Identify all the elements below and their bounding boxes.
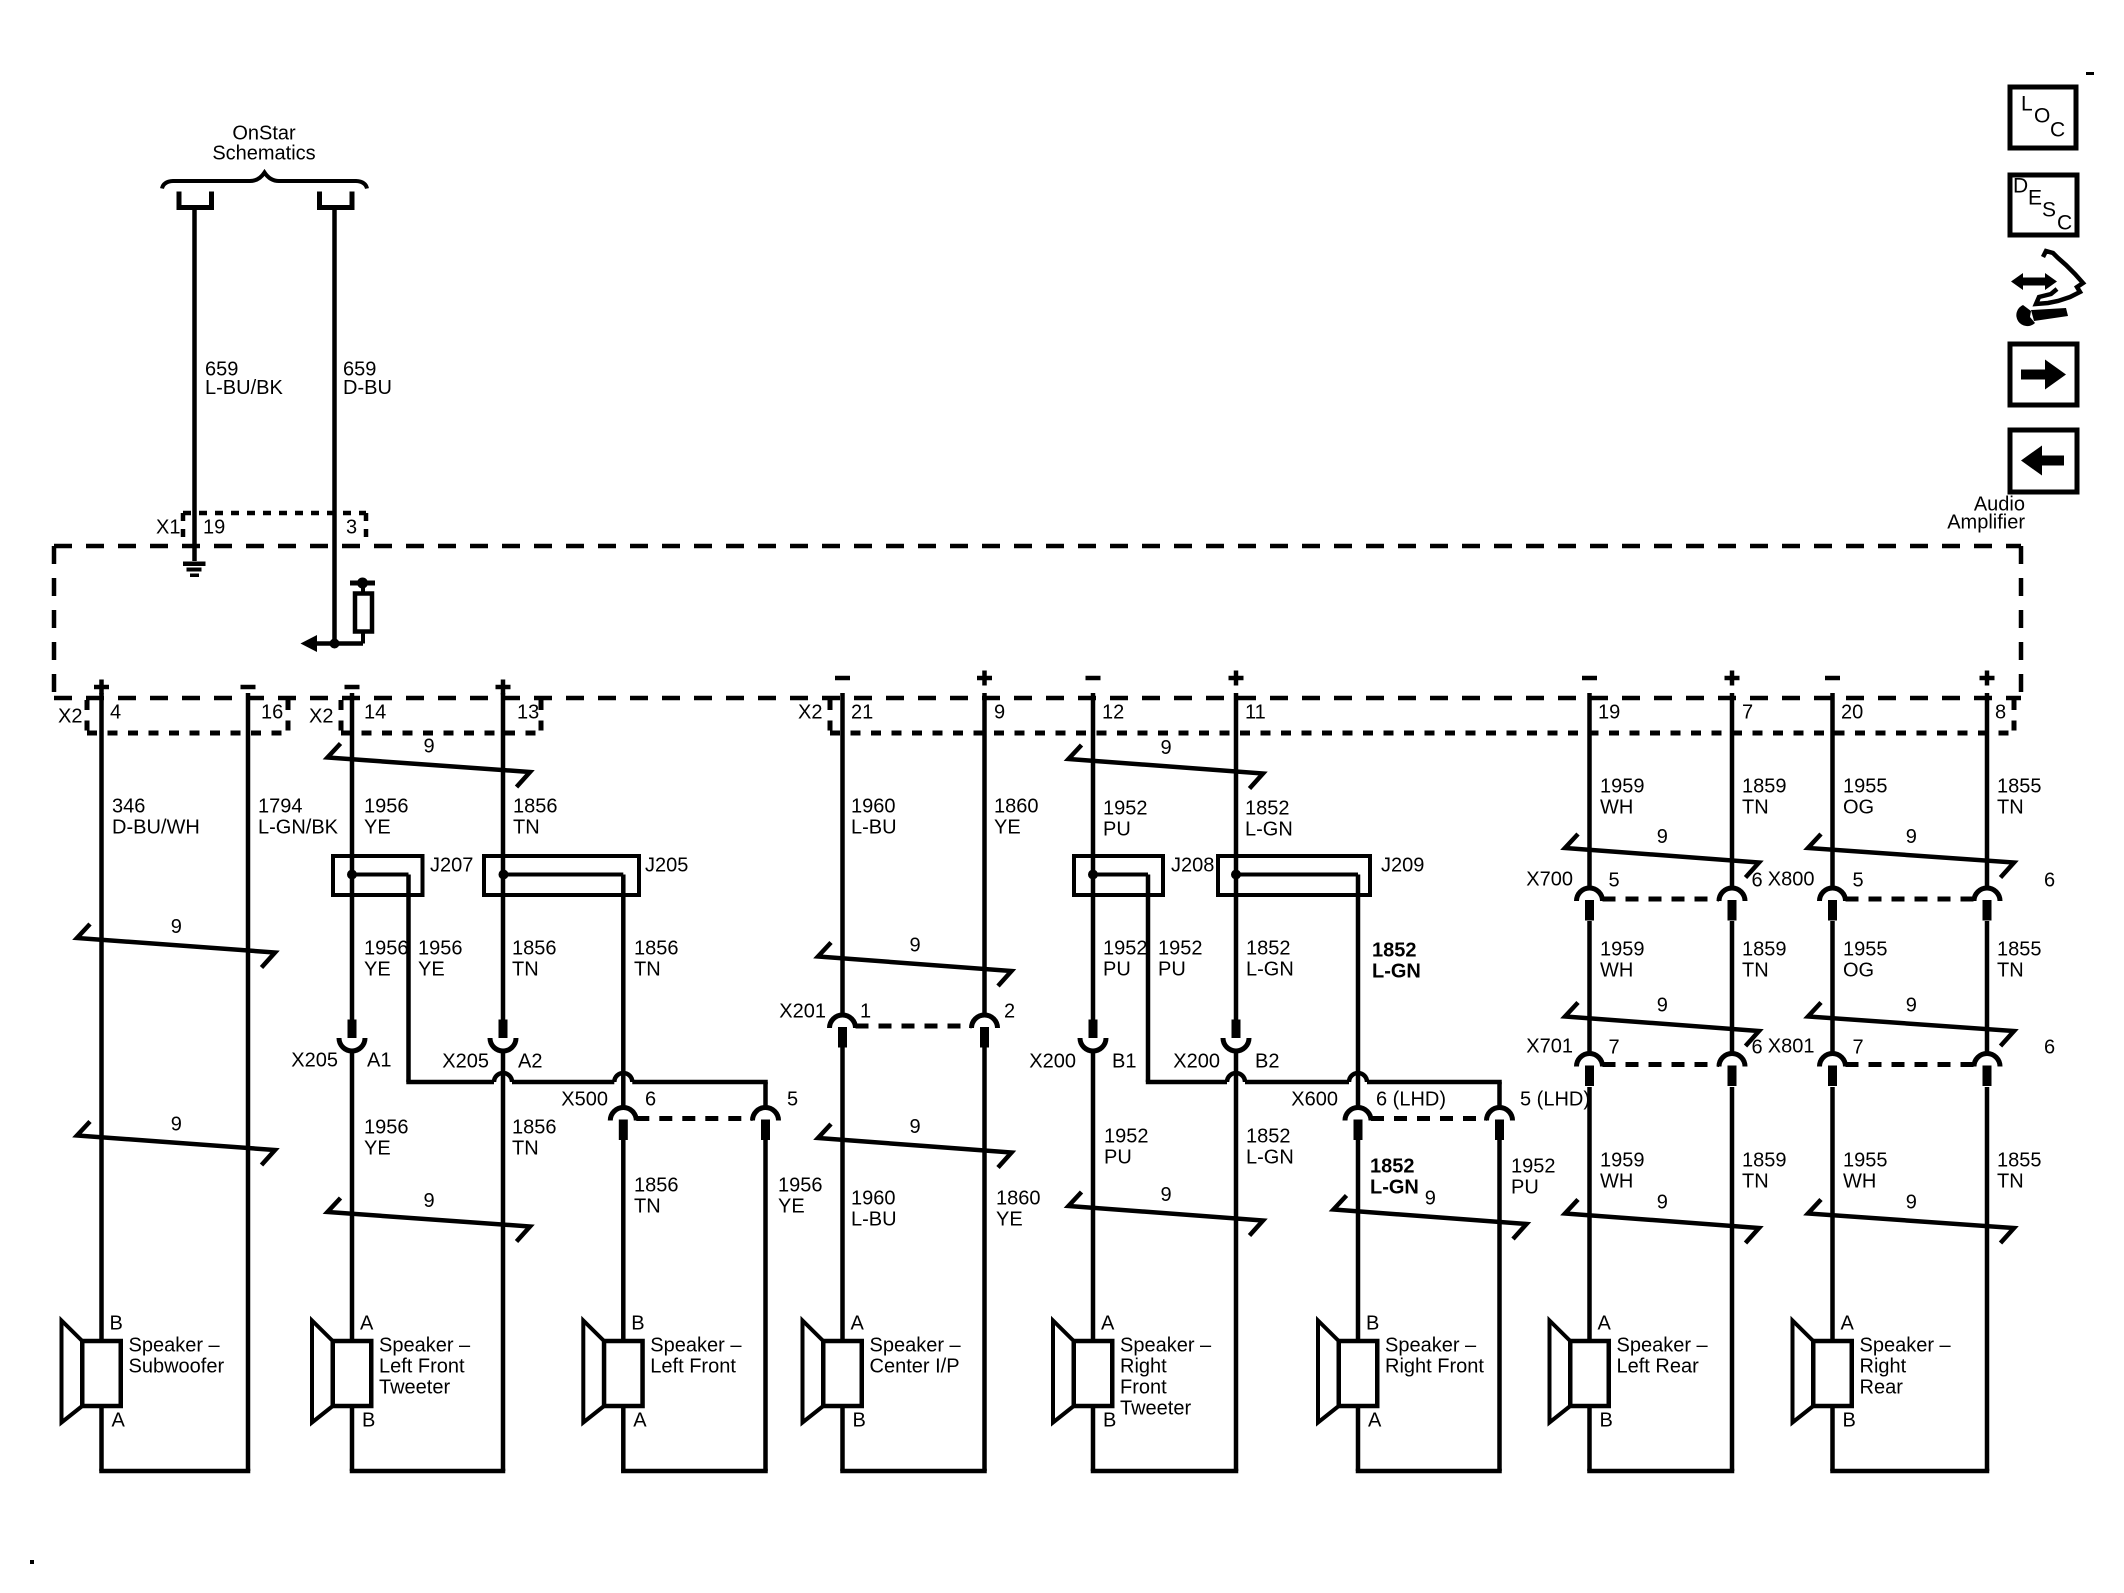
svg-text:B: B xyxy=(853,1410,866,1432)
svg-text:TN: TN xyxy=(1997,797,2024,819)
svg-text:9: 9 xyxy=(994,702,1005,724)
twisted pair marker left rear (middle) xyxy=(1565,995,1759,1046)
connector X800 pin 6 xyxy=(1974,888,2000,921)
svg-text:9: 9 xyxy=(424,1190,435,1212)
svg-text:Front: Front xyxy=(1120,1377,1167,1399)
label wire 1860 YE (pin9) xyxy=(994,796,1039,839)
svg-text:A2: A2 xyxy=(518,1051,542,1073)
svg-text:1959: 1959 xyxy=(1600,1150,1645,1172)
svg-text:J205: J205 xyxy=(645,855,688,877)
svg-text:346: 346 xyxy=(112,796,145,818)
wire Left Rear to bottom loop xyxy=(1587,1406,1734,1471)
speaker Left Front xyxy=(583,1313,742,1432)
svg-text:D-BU: D-BU xyxy=(343,377,392,399)
splice J208 xyxy=(1074,856,1163,895)
polarity - at amplifier output xyxy=(835,676,850,681)
polarity - at amplifier output xyxy=(241,685,256,690)
svg-text:O: O xyxy=(2034,104,2050,127)
label wire 346 D-BU/WH xyxy=(112,796,200,839)
svg-text:14: 14 xyxy=(364,702,386,724)
svg-text:B: B xyxy=(110,1313,123,1335)
wire 1856 TN branch J205 to left front speaker xyxy=(621,875,626,1342)
svg-text:9: 9 xyxy=(1657,1192,1668,1214)
svg-text:9: 9 xyxy=(910,935,921,957)
label wire 1852 L-GN (pin11) xyxy=(1245,798,1293,841)
svg-text:1: 1 xyxy=(860,1001,871,1023)
label wire 1859 TN (pin7) xyxy=(1742,776,1787,819)
label wire 1859 TN (low) xyxy=(1742,1150,1787,1193)
svg-text:Speaker –: Speaker – xyxy=(1617,1335,1709,1357)
connector X500 pin 6 xyxy=(610,1108,636,1140)
svg-text:1856: 1856 xyxy=(512,1117,557,1139)
svg-text:WH: WH xyxy=(1600,797,1633,819)
label wire 659 L-BU/BK xyxy=(205,359,283,400)
wire 1952 PU pin12 to RF tweeter xyxy=(1091,693,1096,1341)
svg-text:TN: TN xyxy=(1742,1171,1769,1193)
svg-text:Left Front: Left Front xyxy=(379,1356,465,1378)
svg-text:6 (LHD): 6 (LHD) xyxy=(1376,1089,1446,1111)
svg-text:2: 2 xyxy=(1004,1001,1015,1023)
wire Right Front to bottom loop xyxy=(1356,1406,1502,1471)
svg-text:1859: 1859 xyxy=(1742,939,1787,961)
connector X2 pin box (pins 21,9,12,11,19,7,20,8) xyxy=(830,700,2014,733)
svg-text:6: 6 xyxy=(1752,870,1763,892)
svg-text:Center I/P: Center I/P xyxy=(870,1356,960,1378)
svg-text:L-GN: L-GN xyxy=(1246,1147,1294,1169)
svg-text:1956: 1956 xyxy=(778,1175,823,1197)
wire 346 D-BU/WH pin4 to subwoofer xyxy=(99,693,104,1341)
junction dot on wire 659 D-BU xyxy=(330,639,340,649)
wire 1852 L-GN branch J209 to right front speaker xyxy=(1356,875,1361,1342)
label wire 1855 TN (mid) xyxy=(1997,939,2042,982)
resistor inside amplifier xyxy=(355,594,372,632)
svg-text:A: A xyxy=(1598,1313,1612,1335)
connector X600 mating dashed line xyxy=(1371,1116,1487,1121)
svg-text:Left Front: Left Front xyxy=(650,1356,736,1378)
connector X600 pin 6 (LHD) xyxy=(1345,1108,1371,1140)
splice J207 xyxy=(333,856,423,895)
wire Left Front Tweeter to bottom loop xyxy=(350,1406,506,1471)
twisted pair marker left rear (lower) xyxy=(1565,1192,1759,1243)
svg-text:PU: PU xyxy=(1511,1177,1539,1199)
connector X701 pin 7 xyxy=(1577,1054,1603,1086)
svg-text:Schematics: Schematics xyxy=(212,143,315,165)
svg-text:9: 9 xyxy=(171,1114,182,1136)
svg-text:PU: PU xyxy=(1103,819,1131,841)
label wire 1952 PU (pin12) xyxy=(1103,798,1148,841)
label wire 1960 L-BU (pin21) xyxy=(851,796,897,839)
svg-text:6: 6 xyxy=(2044,870,2055,892)
svg-text:TN: TN xyxy=(1997,960,2024,982)
label wire 1955 OG (mid) xyxy=(1843,939,1888,982)
svg-text:1852: 1852 xyxy=(1245,798,1290,820)
polarity + at amplifier output xyxy=(94,680,109,695)
wire 1960 L-BU pin21 to center speaker xyxy=(840,693,845,1341)
svg-text:Right Front: Right Front xyxy=(1385,1356,1484,1378)
wire 1860 YE pin9 to center loop xyxy=(982,693,987,1471)
svg-text:11: 11 xyxy=(1245,702,1266,724)
svg-text:Rear: Rear xyxy=(1860,1377,1904,1399)
svg-text:X801: X801 xyxy=(1768,1036,1815,1058)
connector X800 pin 5 xyxy=(1820,888,1846,921)
label wire 1852 L-GN (below X200 B2) xyxy=(1246,1126,1294,1169)
svg-text:1855: 1855 xyxy=(1997,1150,2042,1172)
svg-text:20: 20 xyxy=(1841,702,1863,724)
wire 659 D-BU from OnStar pin to X1-3 xyxy=(332,208,337,644)
svg-text:1960: 1960 xyxy=(851,1188,896,1210)
label wire 659 D-BU xyxy=(343,359,392,400)
svg-text:X700: X700 xyxy=(1526,869,1573,891)
arrow to internal amplifier circuit xyxy=(301,635,318,652)
svg-text:L-BU: L-BU xyxy=(851,817,897,839)
svg-text:5: 5 xyxy=(787,1089,798,1111)
speaker Right Front Tweeter xyxy=(1053,1313,1212,1432)
wire Subwoofer to bottom loop xyxy=(99,1406,250,1471)
svg-text:1855: 1855 xyxy=(1997,776,2042,798)
label branch 1852 L-GN (J209 splice out) xyxy=(1372,940,1421,983)
svg-text:L-GN/BK: L-GN/BK xyxy=(258,817,339,839)
svg-text:6: 6 xyxy=(2044,1037,2055,1059)
icon box LOC xyxy=(2010,87,2076,148)
svg-text:1852: 1852 xyxy=(1246,1126,1291,1148)
svg-text:B: B xyxy=(1600,1410,1613,1432)
svg-text:8: 8 xyxy=(1995,702,2006,724)
svg-text:1952: 1952 xyxy=(1103,798,1148,820)
svg-text:B1: B1 xyxy=(1112,1051,1136,1073)
connector X701 mating dashed line xyxy=(1603,1062,1720,1067)
svg-text:L-GN: L-GN xyxy=(1370,1177,1419,1199)
svg-text:WH: WH xyxy=(1600,1171,1633,1193)
svg-text:A: A xyxy=(1101,1313,1115,1335)
svg-text:16: 16 xyxy=(261,702,283,724)
connector X1 (dotted box, pins 19 and 3) xyxy=(183,513,366,544)
terminal bar with dot above resistor xyxy=(350,578,375,595)
svg-text:1856: 1856 xyxy=(513,796,558,818)
svg-text:1952: 1952 xyxy=(1103,938,1148,960)
connector X200 pin B2 xyxy=(1223,1020,1249,1052)
label branch 1852 L-GN (main below J209) xyxy=(1246,938,1294,981)
svg-text:PU: PU xyxy=(1103,959,1131,981)
svg-text:5 (LHD): 5 (LHD) xyxy=(1520,1089,1590,1111)
hop over wire 1852 L-GN branch at X600-6 xyxy=(1349,1073,1367,1082)
connector X801 mating dashed line xyxy=(1846,1062,1975,1067)
svg-text:TN: TN xyxy=(1742,797,1769,819)
svg-text:YE: YE xyxy=(364,959,391,981)
svg-text:1856: 1856 xyxy=(634,938,679,960)
svg-text:Speaker –: Speaker – xyxy=(1860,1335,1952,1357)
connector X201 pin 2 xyxy=(972,1015,998,1047)
audio amplifier dashed box xyxy=(54,546,2021,698)
wire Left Front to bottom loop xyxy=(621,1406,768,1471)
svg-text:9: 9 xyxy=(1161,737,1172,759)
svg-text:1960: 1960 xyxy=(851,796,896,818)
svg-text:9: 9 xyxy=(424,736,435,758)
svg-text:1860: 1860 xyxy=(996,1188,1041,1210)
svg-text:X2: X2 xyxy=(58,706,82,728)
svg-text:OG: OG xyxy=(1843,960,1874,982)
svg-text:1959: 1959 xyxy=(1600,939,1645,961)
svg-text:1856: 1856 xyxy=(634,1175,679,1197)
connector X500 pin 5 xyxy=(753,1108,779,1140)
svg-text:A: A xyxy=(112,1410,126,1432)
label branch 1856 TN (J205 splice out) xyxy=(634,938,679,981)
svg-text:1860: 1860 xyxy=(994,796,1039,818)
svg-text:OnStar: OnStar xyxy=(232,123,296,145)
svg-text:9: 9 xyxy=(910,1116,921,1138)
svg-text:X600: X600 xyxy=(1291,1089,1338,1111)
svg-text:C: C xyxy=(2057,211,2072,234)
svg-text:21: 21 xyxy=(851,702,873,724)
svg-text:1855: 1855 xyxy=(1997,939,2042,961)
svg-text:X200: X200 xyxy=(1029,1051,1076,1073)
svg-text:Tweeter: Tweeter xyxy=(379,1377,450,1399)
label wire 1952 PU (below X200 B1) xyxy=(1104,1126,1149,1169)
svg-text:1956: 1956 xyxy=(418,938,463,960)
svg-text:12: 12 xyxy=(1102,702,1124,724)
svg-text:7: 7 xyxy=(1742,702,1753,724)
svg-text:L-GN: L-GN xyxy=(1245,819,1293,841)
svg-text:9: 9 xyxy=(1906,1192,1917,1214)
label wire 1860 YE (low) xyxy=(996,1188,1041,1231)
speaker Center I/P xyxy=(803,1313,962,1432)
svg-text:X1: X1 xyxy=(156,517,180,539)
svg-text:YE: YE xyxy=(994,817,1021,839)
polarity + at amplifier output xyxy=(1980,671,1995,686)
wire from resistor to junction xyxy=(309,632,363,644)
label wire 1856 TN (below X500-6) xyxy=(634,1175,679,1218)
polarity + at amplifier output xyxy=(977,671,992,686)
svg-text:Right: Right xyxy=(1860,1356,1907,1378)
label wire 1955 WH (low) xyxy=(1843,1150,1888,1193)
wire 1852 L-GN pin11 to RF tweeter loop xyxy=(1234,693,1239,1471)
twisted pair marker subwoofer (lower) xyxy=(77,1114,275,1165)
connector X201 mating dashed line xyxy=(856,1024,972,1029)
svg-text:X800: X800 xyxy=(1768,869,1815,891)
label wire 1960 L-BU (low) xyxy=(851,1188,897,1231)
svg-text:5: 5 xyxy=(1853,870,1864,892)
svg-text:YE: YE xyxy=(996,1209,1023,1231)
wire Center I/P to bottom loop xyxy=(840,1406,987,1471)
svg-text:1852: 1852 xyxy=(1246,938,1291,960)
twisted pair marker center speaker (upper) xyxy=(818,935,1012,986)
svg-text:TN: TN xyxy=(1742,960,1769,982)
label Audio Amplifier xyxy=(1947,494,2025,534)
label wire 1856 TN (below X205 A2) xyxy=(512,1117,557,1160)
svg-text:X200: X200 xyxy=(1173,1051,1220,1073)
svg-text:X201: X201 xyxy=(779,1001,826,1023)
svg-text:9: 9 xyxy=(1657,826,1668,848)
label branch 1952 PU (main below J208) xyxy=(1103,938,1148,981)
speaker Subwoofer xyxy=(62,1313,225,1432)
hop over wire 1856 TN branch at X500-6 xyxy=(614,1073,632,1082)
label branch 1952 PU (J208 splice out) xyxy=(1158,938,1203,981)
twisted pair marker right rear (lower) xyxy=(1808,1192,2014,1243)
brace over OnStar connectors xyxy=(162,173,367,189)
svg-text:9: 9 xyxy=(1906,995,1917,1017)
svg-text:A1: A1 xyxy=(367,1050,391,1072)
connector X701 pin 6 xyxy=(1719,1054,1745,1086)
twisted pair marker LF tweeter (lower) xyxy=(328,1190,531,1241)
svg-text:Subwoofer: Subwoofer xyxy=(129,1356,225,1378)
svg-text:1956: 1956 xyxy=(364,1117,409,1139)
connector X600 pin 5 (LHD) xyxy=(1487,1108,1513,1140)
svg-text:L-BU: L-BU xyxy=(851,1209,897,1231)
ground symbol xyxy=(183,562,206,578)
svg-text:WH: WH xyxy=(1600,960,1633,982)
connector X800 mating dashed line xyxy=(1846,897,1975,902)
wire 1959 WH pin19 to left rear speaker xyxy=(1587,693,1592,1341)
icon hotlink arrows and wrench xyxy=(2011,251,2083,326)
svg-text:TN: TN xyxy=(512,959,539,981)
polarity + at amplifier output xyxy=(1725,671,1740,686)
wire 1856 TN pin13 to LF tweeter loop xyxy=(501,693,506,1471)
svg-text:D-BU/WH: D-BU/WH xyxy=(112,817,200,839)
svg-text:1952: 1952 xyxy=(1104,1126,1149,1148)
connector X205 pin A2 xyxy=(490,1020,516,1052)
connector X500 mating dashed line xyxy=(636,1116,752,1121)
svg-text:PU: PU xyxy=(1104,1147,1132,1169)
svg-text:1952: 1952 xyxy=(1511,1156,1556,1178)
svg-text:B: B xyxy=(1103,1410,1116,1432)
svg-text:C: C xyxy=(2050,118,2065,141)
svg-text:TN: TN xyxy=(1997,1171,2024,1193)
svg-text:E: E xyxy=(2028,186,2042,209)
speaker Right Front xyxy=(1318,1313,1484,1432)
label wire 1956 YE (pin14) xyxy=(364,796,409,839)
label branch 1956 YE (J207 splice out) xyxy=(418,938,463,981)
wire 659 L-BU/BK from OnStar pin to X1-19 xyxy=(192,208,197,562)
svg-text:5: 5 xyxy=(1609,870,1620,892)
label wire 1952 PU (below X600-5) xyxy=(1511,1156,1556,1199)
svg-text:J208: J208 xyxy=(1171,855,1214,877)
speaker Left Rear xyxy=(1550,1313,1709,1432)
link wire J207 branch to X500-5 (left segment) xyxy=(406,1080,494,1085)
connector X201 pin 1 xyxy=(830,1015,856,1047)
polarity - at amplifier output xyxy=(1086,676,1101,681)
label branch 1956 YE (main below J207) xyxy=(364,938,409,981)
wire 1955 OG pin20 to right rear speaker xyxy=(1830,693,1835,1341)
page artifact dot bottom left xyxy=(30,1560,34,1564)
svg-text:YE: YE xyxy=(778,1196,805,1218)
twisted pair marker RF tweeter (upper) xyxy=(1069,737,1264,788)
svg-text:WH: WH xyxy=(1843,1171,1876,1193)
svg-text:1955: 1955 xyxy=(1843,1150,1888,1172)
label wire 1959 WH (pin19) xyxy=(1600,776,1645,819)
svg-text:19: 19 xyxy=(1598,702,1620,724)
link wire J208 branch to X600-5 (left segment) xyxy=(1146,1080,1227,1085)
icon box arrow right xyxy=(2010,344,2077,405)
wire 1859 TN pin7 to left rear loop xyxy=(1730,693,1735,1471)
svg-text:9: 9 xyxy=(1161,1184,1172,1206)
svg-text:1859: 1859 xyxy=(1742,776,1787,798)
twisted pair marker LF tweeter (upper) xyxy=(328,736,531,787)
label wire 1852 L-GN (below X600-6) xyxy=(1370,1156,1419,1199)
hop over wire 1856 TN at X205 A2 xyxy=(494,1073,512,1082)
svg-text:A: A xyxy=(360,1313,374,1335)
polarity + at amplifier output xyxy=(1229,671,1244,686)
svg-text:X205: X205 xyxy=(442,1051,489,1073)
svg-text:L-GN: L-GN xyxy=(1372,961,1421,983)
OnStar connector terminal 2 xyxy=(320,192,353,208)
polarity - at amplifier output xyxy=(345,685,360,690)
svg-text:1956: 1956 xyxy=(364,938,409,960)
wire 1956 YE branch from J207 xyxy=(406,875,411,1083)
page artifact dash top right xyxy=(2086,72,2094,75)
twisted pair marker left rear (upper) xyxy=(1565,826,1759,877)
wire Right Rear to bottom loop xyxy=(1830,1406,1989,1471)
svg-text:Speaker –: Speaker – xyxy=(379,1335,471,1357)
twisted pair marker right rear (middle) xyxy=(1808,995,2014,1046)
svg-text:1856: 1856 xyxy=(512,938,557,960)
link wire (right segment) xyxy=(1367,1080,1502,1085)
svg-text:1956: 1956 xyxy=(364,796,409,818)
svg-text:1852: 1852 xyxy=(1370,1156,1415,1178)
label wire 1856 TN (pin13) xyxy=(513,796,558,839)
svg-text:YE: YE xyxy=(364,817,391,839)
wire 1952 PU branch from J208 xyxy=(1146,875,1151,1083)
link wire (middle segment) xyxy=(1245,1080,1349,1085)
svg-text:1859: 1859 xyxy=(1742,1150,1787,1172)
polarity - at amplifier output xyxy=(1582,676,1597,681)
svg-text:TN: TN xyxy=(634,959,661,981)
svg-text:A: A xyxy=(1841,1313,1855,1335)
wire 1855 TN pin8 to right rear loop xyxy=(1985,693,1990,1471)
svg-text:Left Rear: Left Rear xyxy=(1617,1356,1700,1378)
svg-text:A: A xyxy=(633,1410,647,1432)
wire 1956 YE pin14 to LF tweeter xyxy=(350,693,355,1341)
svg-text:1955: 1955 xyxy=(1843,939,1888,961)
connector X2 pin box (pins 4,16) xyxy=(87,700,288,733)
svg-text:9: 9 xyxy=(171,916,182,938)
svg-text:Speaker –: Speaker – xyxy=(870,1335,962,1357)
svg-text:TN: TN xyxy=(512,1138,539,1160)
splice J205 xyxy=(484,856,639,895)
svg-text:L-BU/BK: L-BU/BK xyxy=(205,377,283,399)
svg-text:9: 9 xyxy=(1425,1188,1436,1210)
hop over wire 1852 L-GN at X200 B2 xyxy=(1227,1073,1245,1082)
connector X2 pin box (pins 14,13) xyxy=(341,700,541,733)
svg-text:9: 9 xyxy=(1906,826,1917,848)
svg-text:A: A xyxy=(1368,1410,1382,1432)
svg-text:Speaker –: Speaker – xyxy=(129,1335,221,1357)
wire 1794 L-GN/BK pin16 to subwoofer loop xyxy=(246,693,251,1471)
svg-text:OG: OG xyxy=(1843,797,1874,819)
connector X700 mating dashed line xyxy=(1603,897,1720,902)
wire 1952 PU X600-5 to right front loop xyxy=(1497,1082,1502,1471)
icon box arrow left xyxy=(2010,430,2077,492)
connector X801 pin 6 xyxy=(1974,1054,2000,1086)
link wire (right segment) xyxy=(632,1080,767,1085)
connector X205 pin A1 xyxy=(339,1020,365,1052)
OnStar connector terminal 1 xyxy=(179,192,212,208)
twisted pair marker center speaker (lower) xyxy=(818,1116,1012,1167)
svg-text:PU: PU xyxy=(1158,959,1186,981)
icon box DESC xyxy=(2010,174,2077,235)
label wire 1855 TN (pin8) xyxy=(1997,776,2042,819)
label wire 1955 OG (pin20) xyxy=(1843,776,1888,819)
label wire 1859 TN (mid) xyxy=(1742,939,1787,982)
svg-text:6: 6 xyxy=(645,1089,656,1111)
connector X801 pin 7 xyxy=(1820,1054,1846,1086)
label wire 1959 WH (mid) xyxy=(1600,939,1645,982)
svg-text:TN: TN xyxy=(513,817,540,839)
label branch 1856 TN (main below J205) xyxy=(512,938,557,981)
svg-text:J209: J209 xyxy=(1381,855,1424,877)
speaker Right Rear xyxy=(1793,1313,1952,1432)
svg-text:X2: X2 xyxy=(798,702,822,724)
svg-text:13: 13 xyxy=(517,702,539,724)
svg-text:X500: X500 xyxy=(561,1089,608,1111)
